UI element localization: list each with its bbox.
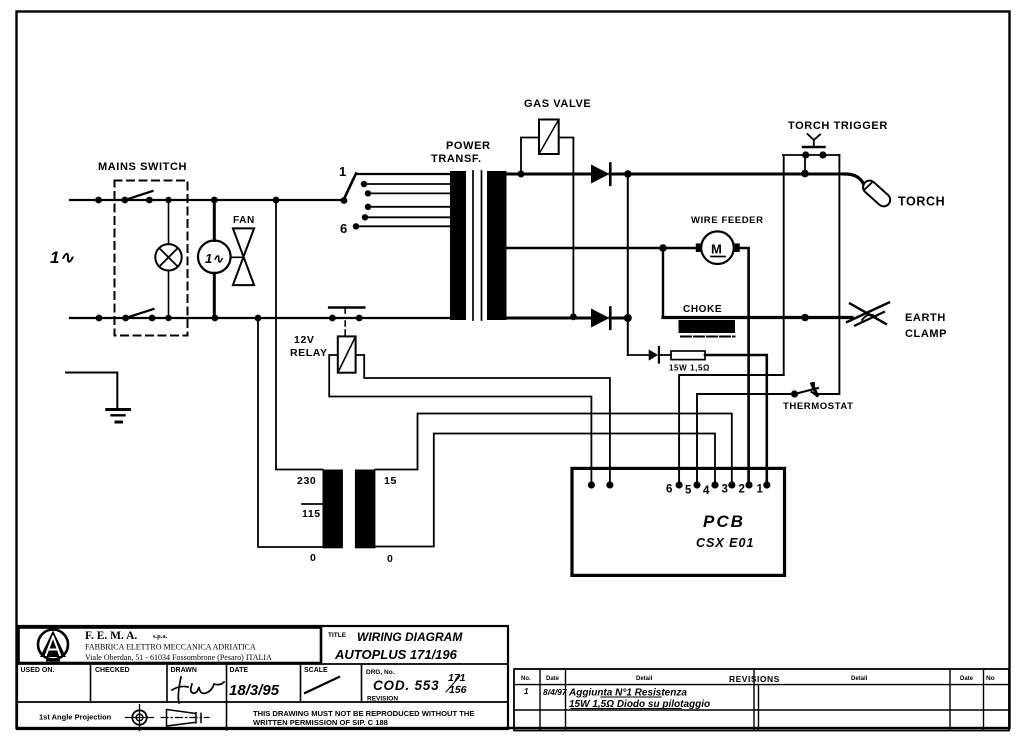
svg-text:F. E. M. A.: F. E. M. A. xyxy=(85,630,137,642)
drg no cell xyxy=(366,669,467,703)
svg-text:FABBRICA ELETTRO MECCANICA ADR: FABBRICA ELETTRO MECCANICA ADRIATICA xyxy=(85,643,256,652)
1st angle projection cell xyxy=(39,705,209,731)
svg-text:WRITTEN PERMISSION OF SIP. C: WRITTEN PERMISSION OF SIP. C 188 xyxy=(253,718,388,727)
svg-text:TRANSF.: TRANSF. xyxy=(431,153,482,165)
svg-text:1: 1 xyxy=(524,687,529,696)
drawn signature xyxy=(172,677,224,703)
wire secondary center tap to wire feeder xyxy=(506,244,696,252)
wire center tap branch down to choke xyxy=(662,248,664,318)
svg-text:CSX E01: CSX E01 xyxy=(696,536,754,550)
svg-text:8/4/97: 8/4/97 xyxy=(543,687,568,697)
resistor R1 15W 1,5ohm xyxy=(628,351,710,373)
svg-text:s.p.a.: s.p.a. xyxy=(153,633,168,640)
scale slash xyxy=(305,677,339,693)
svg-text:POWER: POWER xyxy=(446,140,491,152)
svg-text:CHECKED: CHECKED xyxy=(95,667,130,674)
wire relay coil left to PCB terminal A xyxy=(329,355,595,489)
svg-text:EARTH: EARTH xyxy=(905,312,946,324)
wire trigger left vertical xyxy=(783,155,785,375)
svg-text:No: No xyxy=(986,675,995,682)
fan motor M1 xyxy=(198,197,231,322)
ground PE xyxy=(66,373,130,423)
svg-text:DRG, No.: DRG, No. xyxy=(366,669,395,676)
used on / checked / drawn / date / scale cells xyxy=(21,667,329,674)
svg-text:FAN: FAN xyxy=(233,215,255,226)
thermostat S3 xyxy=(783,383,854,412)
wire aux secondary top to PCB terminal 3 xyxy=(375,414,735,489)
title block xyxy=(17,626,508,730)
svg-text:REVISION: REVISION xyxy=(367,696,398,703)
svg-text:Date: Date xyxy=(546,676,560,682)
wire aux secondary bottom to PCB terminal 4 xyxy=(375,434,718,547)
wire trigger to PCB terminal 6 xyxy=(676,375,784,489)
earth clamp symbol xyxy=(847,303,947,341)
svg-text:AUTOPLUS 171/196: AUTOPLUS 171/196 xyxy=(334,647,458,662)
svg-text:CHOKE: CHOKE xyxy=(683,304,722,315)
svg-text:Detail: Detail xyxy=(636,676,653,682)
wire mains live L xyxy=(70,197,344,204)
svg-text:Viale Oberdan, 51 - 61034 Foss: Viale Oberdan, 51 - 61034 Fossombrone (P… xyxy=(85,653,272,662)
svg-text:TORCH: TORCH xyxy=(898,195,945,209)
svg-text:1st Angle Projection: 1st Angle Projection xyxy=(39,713,112,722)
svg-text:1∿: 1∿ xyxy=(205,251,224,266)
svg-text:SCALE: SCALE xyxy=(304,667,328,674)
svg-text:12V: 12V xyxy=(294,334,314,346)
svg-text:2: 2 xyxy=(739,484,746,496)
power transformer T1 xyxy=(431,140,507,320)
svg-text:No.: No. xyxy=(521,676,531,682)
svg-text:115: 115 xyxy=(302,508,321,520)
svg-text:WIRING DIAGRAM: WIRING DIAGRAM xyxy=(357,630,463,644)
svg-text:18/3/95: 18/3/95 xyxy=(229,682,280,699)
svg-text:6: 6 xyxy=(340,221,348,236)
wire N tap to aux transformer primary 0 xyxy=(258,318,323,547)
diode D2 xyxy=(591,308,610,329)
PCB CSX E01 xyxy=(572,468,785,575)
F.E.M.A. logo xyxy=(38,627,68,661)
wire bottom secondary bus xyxy=(506,314,632,322)
choke L1 and earth bus xyxy=(663,304,852,337)
svg-text:TORCH TRIGGER: TORCH TRIGGER xyxy=(788,120,888,132)
svg-text:MAINS SWITCH: MAINS SWITCH xyxy=(98,161,187,173)
fan blade symbol xyxy=(231,215,255,285)
svg-text:230: 230 xyxy=(297,475,316,487)
wire resistor to PCB terminal 1 xyxy=(705,355,770,489)
svg-text:171: 171 xyxy=(448,672,466,684)
torch output xyxy=(845,174,945,209)
relay RL1 coil 12V xyxy=(290,334,356,373)
wire mains neutral N xyxy=(70,315,450,322)
company name text xyxy=(85,630,272,662)
svg-text:DRAWN: DRAWN xyxy=(171,667,197,674)
svg-text:RELAY: RELAY xyxy=(290,347,328,359)
wire trigger right vertical to thermostat xyxy=(818,155,839,394)
svg-text:GAS VALVE: GAS VALVE xyxy=(524,98,591,110)
svg-text:THIS DRAWING MUST NOT BE REPRO: THIS DRAWING MUST NOT BE REPRODUCED WITH… xyxy=(253,709,474,718)
relay RL1 contact on N line xyxy=(329,308,364,337)
selector switch tap 1-6 xyxy=(339,164,450,236)
svg-text:THERMOSTAT: THERMOSTAT xyxy=(783,401,854,412)
auxiliary transformer T2 xyxy=(297,470,397,566)
reproduction notice xyxy=(253,709,474,727)
svg-text:USED ON.: USED ON. xyxy=(21,667,55,674)
wire feeder motor to PCB terminal 2 xyxy=(740,248,753,489)
diode D1 xyxy=(591,164,610,185)
svg-text:4: 4 xyxy=(703,485,710,497)
svg-text:M: M xyxy=(711,242,722,257)
wire rectifier output vertical xyxy=(627,174,629,355)
svg-text:6: 6 xyxy=(666,484,673,496)
svg-text:1∿: 1∿ xyxy=(50,248,74,267)
svg-text:COD. 553: COD. 553 xyxy=(373,678,439,693)
wire L tap to aux transformer primary 230 xyxy=(276,200,323,470)
svg-text:Date: Date xyxy=(960,676,974,682)
svg-text:REVISIONS: REVISIONS xyxy=(729,674,780,684)
svg-text:TITLE: TITLE xyxy=(328,632,347,639)
svg-text:WIRE FEEDER: WIRE FEEDER xyxy=(691,215,764,226)
diode D3 (added rev.1) xyxy=(649,347,659,363)
revisions table xyxy=(514,669,1009,731)
wire top secondary bus xyxy=(506,170,845,178)
torch trigger switch S2 xyxy=(783,120,888,174)
svg-text:1: 1 xyxy=(757,484,764,496)
date 18/3/95 xyxy=(229,682,280,699)
svg-text:15: 15 xyxy=(384,475,397,487)
svg-text:Detail: Detail xyxy=(851,676,868,682)
svg-text:3: 3 xyxy=(722,484,729,496)
wire feeder motor M2 xyxy=(691,215,764,264)
svg-text:1: 1 xyxy=(339,164,347,179)
svg-text:PCB: PCB xyxy=(703,512,745,531)
lamp (pilot light) xyxy=(155,197,181,321)
svg-text:15W 1,5Ω: 15W 1,5Ω xyxy=(669,364,710,373)
svg-text:0: 0 xyxy=(310,552,316,564)
wire thermostat to PCB terminal 5 xyxy=(693,394,794,489)
svg-text:DATE: DATE xyxy=(230,667,249,674)
revision row 1 xyxy=(524,687,710,710)
title cell xyxy=(328,630,463,662)
svg-text:CLAMP: CLAMP xyxy=(905,328,947,340)
svg-text:0: 0 xyxy=(387,553,393,565)
svg-text:5: 5 xyxy=(685,485,692,497)
mains switch S1 xyxy=(98,161,188,336)
gas valve Y1 xyxy=(518,98,592,320)
wire relay coil right to PCB terminal B xyxy=(356,355,614,489)
